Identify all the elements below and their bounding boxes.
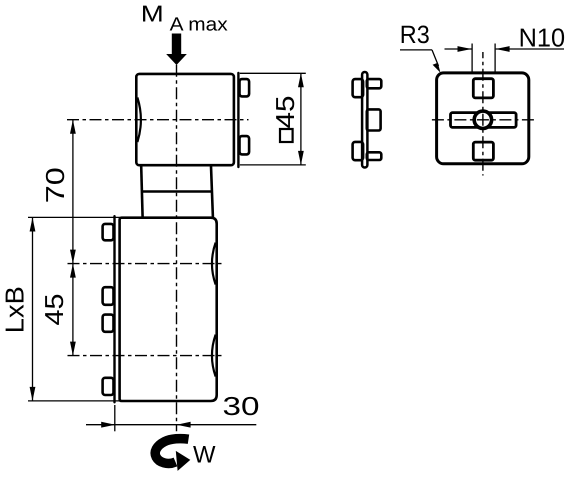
side view right tab lower xyxy=(367,152,382,160)
side view plate bar xyxy=(362,72,367,168)
dimension N10 line left xyxy=(445,46,472,52)
neck right edge xyxy=(211,166,213,217)
top view vertical centerline xyxy=(482,52,484,176)
top box right tab upper xyxy=(240,79,250,96)
lower box right edge arc upper xyxy=(212,243,216,285)
label M_A max xyxy=(141,1,228,36)
dimension 30 line xyxy=(86,422,256,428)
lower box left tab 3 xyxy=(103,315,114,332)
svg-text:LxB: LxB xyxy=(0,286,29,333)
top box right tab lower xyxy=(240,136,250,154)
side view left tab lower xyxy=(353,142,364,160)
top box body xyxy=(136,74,234,165)
side view right tab upper xyxy=(367,79,382,88)
top view outer square xyxy=(437,73,529,164)
horizontal centerline lower box upper xyxy=(68,263,222,265)
vertical centerline of front view xyxy=(176,65,178,432)
dimension LxB extension top xyxy=(28,216,120,218)
top box left edge arc xyxy=(137,98,141,143)
lower box left tab 1 xyxy=(103,224,114,240)
svg-text:N10: N10 xyxy=(519,22,566,52)
lower box left tab 2 xyxy=(103,287,114,305)
dimension square45 extension bottom xyxy=(240,164,306,166)
R3 leader line xyxy=(400,49,432,51)
dimension N10 extension right xyxy=(494,44,496,72)
dimension N10 line right xyxy=(496,46,564,52)
rotation arrow W xyxy=(155,439,188,464)
svg-text:W: W xyxy=(193,442,216,469)
dimension 30 extension line xyxy=(114,405,116,431)
neck left edge xyxy=(141,166,142,217)
dimension square45 square symbol xyxy=(280,129,293,142)
lower box left mounting strip xyxy=(113,216,115,402)
svg-text:R3: R3 xyxy=(400,21,430,49)
top view groove square top xyxy=(473,79,493,98)
horizontal centerline lower box lower xyxy=(68,355,222,357)
top box right mounting strip xyxy=(237,73,239,167)
horizontal centerline top box xyxy=(67,119,249,121)
top view horizontal centerline xyxy=(429,119,537,121)
svg-text:M: M xyxy=(141,1,164,27)
torque arrow down (M A max) xyxy=(166,34,187,66)
svg-text:70: 70 xyxy=(40,167,70,203)
svg-text:30: 30 xyxy=(223,391,260,421)
dimension LxB line xyxy=(30,218,36,401)
top view groove square bottom xyxy=(473,142,493,160)
top view slot xyxy=(451,113,517,128)
dimension square45 extension top xyxy=(240,72,306,74)
side view right tab middle xyxy=(367,109,381,130)
svg-text:45: 45 xyxy=(270,96,300,129)
lower box right edge arc lower xyxy=(212,335,216,377)
top view center hole xyxy=(474,111,491,128)
side view left tab upper xyxy=(353,79,364,97)
dimension LxB extension bottom xyxy=(28,400,120,402)
dimension N10 extension left xyxy=(471,44,473,72)
dimension square45 line xyxy=(298,73,304,165)
lower box left tab 4 xyxy=(103,378,114,395)
neck middle line xyxy=(142,190,213,193)
dimension 45 line xyxy=(70,264,76,356)
svg-text:45: 45 xyxy=(39,294,69,326)
lower box body xyxy=(120,218,217,401)
dimension 70 line xyxy=(70,120,76,264)
svg-text:A max: A max xyxy=(170,15,229,36)
